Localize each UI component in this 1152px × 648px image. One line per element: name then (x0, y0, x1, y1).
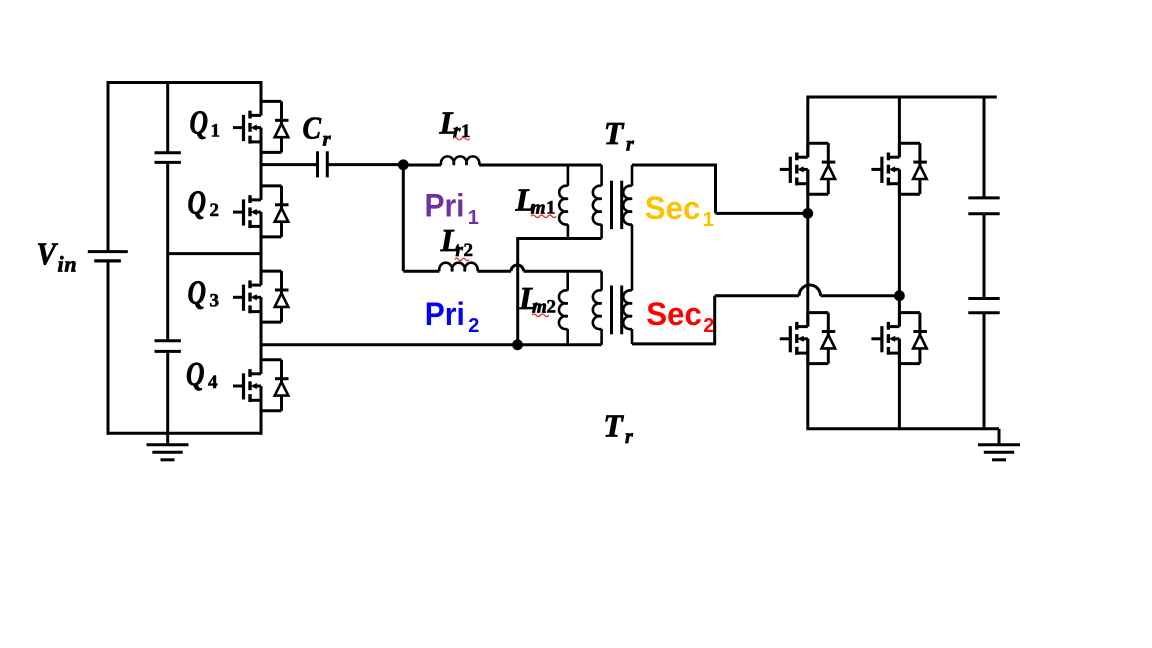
svg-text:2: 2 (703, 315, 714, 337)
squiggle under r1 (453, 137, 470, 140)
svg-text:r: r (323, 127, 332, 151)
wire: bridge left leg segments (806, 97, 809, 157)
squiggle under m2 (532, 314, 549, 317)
transistor Q3 (233, 271, 289, 322)
inductor Lm2 (566, 271, 569, 290)
wire: to Lr2 (403, 270, 439, 273)
ground (right) (978, 445, 1020, 460)
wire: Lr1 to transformer1 top (479, 164, 601, 167)
svg-text:1: 1 (468, 207, 479, 229)
wire: left outer rail lower (107, 261, 110, 435)
wire: Sec2 hop over left bridge leg (no connection) (799, 285, 820, 296)
capacitor Cin2 (155, 339, 181, 342)
wire: bridge bottom rail (806, 427, 999, 430)
svg-text:1: 1 (703, 209, 714, 231)
svg-text:Q: Q (190, 105, 209, 142)
capacitor Cr (316, 151, 319, 177)
svg-text:Pri: Pri (425, 188, 465, 224)
transformer T1 primary winding (600, 165, 603, 186)
svg-text:T: T (603, 407, 624, 443)
inductor Lr2 (439, 263, 477, 272)
svg-text:2: 2 (210, 200, 220, 221)
wire: bottom-left rail (107, 432, 263, 435)
wire: half-bridge rail segments x=261 (260, 83, 263, 116)
label Lm2 (518, 280, 556, 317)
label Lm1 (515, 181, 556, 218)
wire: node vertical drop (402, 165, 405, 271)
wire: Sec2 output bottom (632, 296, 799, 344)
node C (dot at left bridge leg) (802, 208, 813, 219)
wire: secondary1 bottom to secondary2 top (631, 224, 634, 290)
svg-text:Pri: Pri (425, 296, 465, 332)
wire: inner rail seg1 (166, 83, 169, 153)
transistor Q4 (233, 360, 289, 411)
label Lr2 (440, 222, 474, 261)
wire: Q1/Q2 midpoint to Cr (261, 163, 318, 166)
label Q1 (190, 105, 221, 142)
svg-text:r: r (626, 133, 634, 155)
transformer T2 primary winding (600, 271, 603, 290)
capacitor Cout2 (968, 297, 999, 300)
label Cr (303, 110, 332, 151)
svg-text:in: in (58, 251, 78, 276)
squiggle under m1 (531, 215, 556, 218)
inductor Lm1 (567, 165, 570, 186)
wire: Lr2 to hop (478, 270, 512, 273)
transistor S4 (bridge bottom-right) (871, 313, 927, 364)
svg-text:V: V (37, 236, 59, 272)
wire: top-left rail (107, 81, 263, 84)
node D (dot at right bridge leg) (894, 290, 905, 301)
wire: left outer rail upper (107, 81, 110, 251)
svg-text:4: 4 (208, 372, 218, 393)
squiggle under r2 (455, 258, 469, 261)
svg-text:Sec: Sec (646, 296, 702, 332)
node B (junction dot on return wire) (512, 339, 523, 350)
label Pri1 (425, 188, 479, 230)
wire: Cr to node (327, 163, 403, 166)
svg-text:3: 3 (210, 290, 220, 311)
svg-text:2: 2 (547, 296, 557, 317)
svg-text:r: r (625, 426, 633, 448)
label Vin (37, 236, 78, 277)
capacitor Cin1 (155, 151, 181, 154)
wire: mid junction (168, 252, 261, 255)
transformer T2 secondary winding (623, 290, 632, 329)
transistor S3 (bridge bottom-left) (780, 313, 836, 364)
transformer T2 core (610, 286, 613, 335)
label Sec1 (645, 190, 714, 231)
ground (left) (147, 445, 189, 460)
svg-text:2: 2 (468, 315, 479, 337)
node A (junction dot) (398, 159, 409, 170)
label Lr1 (439, 104, 471, 142)
transistor Q2 (233, 186, 289, 237)
label Pri2 (425, 296, 480, 337)
svg-text:1: 1 (211, 120, 221, 141)
wire: inner rail seg3 (166, 351, 169, 444)
label Sec2 (646, 296, 714, 337)
capacitor Cout1 (968, 196, 999, 199)
svg-text:C: C (303, 110, 322, 146)
transformer T1 secondary winding (631, 165, 634, 186)
wire: bridge right leg segments (898, 97, 901, 157)
transistor S1 (bridge top-left) (780, 143, 836, 194)
transistor Q1 (233, 101, 289, 152)
label Tr (bottom) (603, 407, 633, 448)
svg-text:Q: Q (188, 275, 207, 312)
wire: primary1 bottom to Pri2 return vertical (516, 237, 519, 345)
svg-text:Q: Q (186, 356, 205, 393)
wire: hop over vertical (no connection) (511, 265, 524, 271)
label Tr (top) (604, 115, 634, 155)
transformer T1 core (610, 181, 613, 229)
label Q3 (188, 275, 220, 312)
svg-text:Sec: Sec (645, 190, 701, 226)
wire: output cap rail segments (983, 97, 986, 198)
svg-text:T: T (604, 115, 625, 151)
wire: hop to transformer2 top (524, 270, 602, 273)
wire: ground stem right (998, 429, 1001, 445)
wire: Sec1 output top (632, 164, 808, 214)
wire: Pri2 return from bridge (261, 343, 602, 346)
wire: Sec2 hop to right leg (821, 294, 900, 297)
battery Vin (88, 250, 128, 253)
wire: bridge top rail (806, 96, 996, 99)
inductor Lr1 (441, 156, 479, 165)
wire: inner rail seg2 (166, 162, 169, 340)
transistor S2 (bridge top-right) (871, 143, 927, 194)
label Q4 (186, 356, 218, 393)
svg-text:Q: Q (188, 184, 207, 221)
label Q2 (188, 184, 220, 221)
wire: node to Lr1 (403, 164, 441, 167)
wire: primary1 bottom (518, 237, 602, 240)
